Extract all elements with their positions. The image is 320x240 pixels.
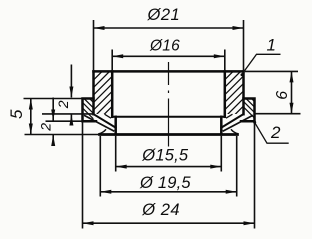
- svg-text:2: 2: [270, 123, 281, 142]
- svg-text:6: 6: [274, 90, 291, 99]
- svg-text:Ø 19,5: Ø 19,5: [139, 174, 191, 192]
- svg-text:Ø15,5: Ø15,5: [141, 146, 189, 164]
- svg-text:Ø 24: Ø 24: [141, 201, 180, 219]
- svg-text:1: 1: [267, 36, 277, 55]
- svg-text:Ø21: Ø21: [147, 6, 181, 24]
- svg-text:5: 5: [7, 109, 26, 119]
- svg-text:Ø16: Ø16: [149, 38, 180, 55]
- svg-text:2: 2: [55, 100, 71, 109]
- svg-text:2: 2: [38, 123, 54, 132]
